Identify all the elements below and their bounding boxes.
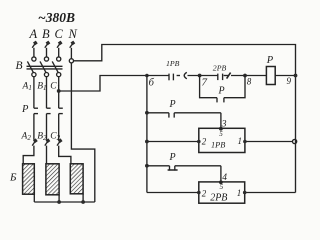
contactor P main contact A [34,107,38,109]
wire B drop to switch [46,48,48,57]
contact 2RV (time delay) [217,74,219,81]
svg-text:Р: Р [21,104,29,115]
svg-text:2: 2 [202,136,207,146]
wire C branch to control rail b [59,76,147,92]
contact P row1 [147,112,169,114]
wire C1 [58,77,60,109]
node 8 dot [243,74,247,78]
terminal clamp A2 [32,138,38,145]
switch linkage bar [27,65,63,67]
wire A2 [33,114,35,140]
junction dot relay1 pin1 [243,140,247,144]
svg-text:Р: Р [266,55,274,66]
heater element 2 [46,164,59,195]
switch pole C blade [52,61,58,72]
wire heater1 bottom [33,194,35,202]
svg-text:2: 2 [202,188,207,198]
wire A2 to heater 1 [23,146,34,164]
relay 2RV box [199,182,245,203]
node b junction dot [145,74,149,78]
wire control row b to 1RV contact [147,75,169,77]
svg-text:N: N [68,27,78,41]
connector circle right rail [293,139,297,143]
wire A drop to switch [33,48,35,57]
wire relay1 pin2 to b rail [147,141,199,143]
heater element 1 [23,164,35,194]
wire B2 to heater 2 [46,146,48,164]
node N circle [69,59,73,63]
svg-text:2РВ: 2РВ [213,63,227,72]
terminal clamp B [45,41,51,48]
terminal clamp C2 [57,138,63,145]
wire b rail to relay2 pin2 [147,192,199,194]
junction dot relay2 pin1 [243,191,247,195]
junction dot relay2 top [219,180,223,184]
contactor P main contact B [47,107,51,109]
wire N down [71,63,94,202]
wire C2 [58,114,60,140]
junction dot bus-heater2 [57,200,61,204]
wire relay2 pin1 to right rail [245,192,296,194]
switch pole B blade [40,61,46,72]
svg-text:7: 7 [202,77,208,89]
heater element 3 [70,164,83,194]
wire relay1 pin1 to right rail [245,141,293,143]
b rail down [146,76,148,193]
svg-text:Р: Р [218,86,225,97]
switch pole C bottom contact [57,73,61,77]
contact 1RV (time delay) [168,74,170,81]
svg-text:А2: А2 [21,132,32,143]
svg-text:В1: В1 [37,82,46,93]
svg-text:1РВ: 1РВ [211,140,225,149]
junction dot relay1 pin2 [197,140,201,144]
wire A1 [33,77,35,109]
svg-text:б: б [149,78,155,89]
junction dot bus-heater3 [81,200,85,204]
svg-text:Р: Р [169,99,176,110]
wire B1 [46,77,48,109]
contactor P main contact C [59,107,63,109]
svg-text:1РВ: 1РВ [166,59,180,68]
svg-text:Б: Б [9,172,17,184]
svg-text:1: 1 [238,136,243,146]
svg-text:~380В: ~380В [38,10,75,25]
wire heater3 bottom [82,194,84,202]
wire B2 [46,114,48,140]
junction dot relay2 pin2 [197,191,201,195]
wire to node 8 [231,75,266,77]
svg-text:5: 5 [219,130,223,138]
wire coil to node 9 [275,75,295,77]
terminal clamp A [32,41,38,48]
svg-text:9: 9 [287,76,292,86]
switch pole B top contact [44,57,48,61]
terminal clamp N [70,41,76,48]
wire N to top rail [73,45,295,193]
wire C drop to switch [58,48,60,57]
svg-text:В: В [16,60,23,72]
svg-text:8: 8 [247,77,252,87]
svg-text:1: 1 [237,188,242,198]
svg-text:А1: А1 [22,82,32,93]
switch pole A top contact [32,57,36,61]
svg-text:В: В [42,27,50,41]
junction dot b rail row2 [145,164,149,168]
svg-text:А: А [29,27,38,41]
contact P row2 [147,165,170,167]
junction dot b rail pin2 [145,140,149,144]
relay 1RV box [199,128,245,152]
switch pole A blade [27,61,33,72]
wire N drop [70,48,72,59]
wire to node 7 [188,75,218,77]
wire C2 to heater 3 [59,146,71,164]
wire to node 3 [220,113,222,129]
switch pole C top contact [57,57,61,61]
terminal clamp B2 [45,138,51,145]
svg-text:2РВ: 2РВ [210,193,227,204]
neutral bus [34,201,95,203]
svg-text:5: 5 [220,183,224,191]
svg-text:Р: Р [169,152,176,163]
svg-text:С: С [55,27,64,41]
node 9 dot [294,74,298,78]
svg-text:В2: В2 [37,132,47,143]
wire heater2 bottom [58,195,60,202]
junction dot relay1 top [219,127,223,131]
wire to node 4 [220,166,222,182]
node 7 dot [198,74,202,78]
node C branch dot [57,89,61,93]
terminal clamp C [57,41,63,48]
switch pole B bottom contact [44,73,48,77]
holding contact P branch 7-8 [200,76,217,98]
switch pole A bottom contact [32,73,36,77]
coil P [266,67,275,85]
junction dot b rail row1 [145,111,149,115]
